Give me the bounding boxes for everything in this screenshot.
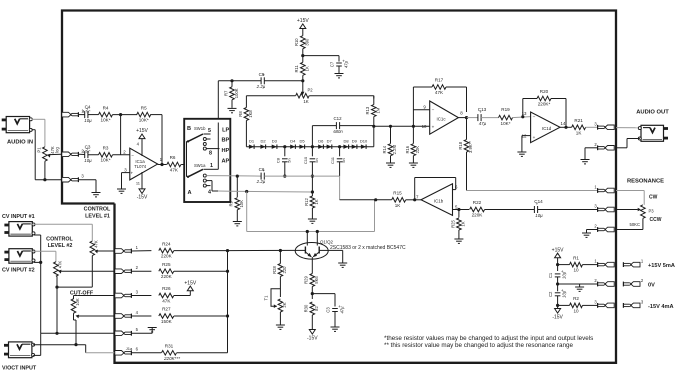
wire to C3e xyxy=(312,294,335,307)
svg-text:8: 8 xyxy=(460,111,463,116)
potentiometer P4 47K xyxy=(90,240,98,255)
connector power 1 xyxy=(594,259,614,267)
diode D8 xyxy=(343,138,349,149)
svg-text:100K: 100K xyxy=(234,88,239,98)
op-amp IC1c xyxy=(430,101,459,134)
resistor R28 220 xyxy=(272,251,287,298)
svg-text:LEVEL #1: LEVEL #1 xyxy=(85,213,110,219)
connector J1 pin5 xyxy=(115,327,139,336)
capacitor C4 10u xyxy=(83,105,93,123)
svg-text:2: 2 xyxy=(136,265,139,270)
svg-text:R27: R27 xyxy=(162,307,171,312)
diode D2 xyxy=(260,138,266,149)
connector resonance 2 xyxy=(594,224,614,232)
label pin4 xyxy=(208,189,211,195)
wire IC1b feedback xyxy=(413,178,456,202)
ground g3 xyxy=(228,108,237,112)
svg-text:4: 4 xyxy=(136,310,139,315)
wire conn3 to R26 xyxy=(132,295,152,297)
label CW xyxy=(649,195,658,201)
diode D6 xyxy=(318,138,324,149)
potentiometer P5 47K xyxy=(54,261,63,277)
svg-text:5n: 5n xyxy=(341,158,346,162)
resistor R5 10K* xyxy=(137,105,151,122)
label J1a xyxy=(126,346,133,351)
resistor R7 100K xyxy=(223,79,238,108)
op-amp IC1a TL074 xyxy=(130,148,158,180)
label CONTROL LEVEL #1 xyxy=(84,207,111,220)
label A xyxy=(188,190,192,196)
connector J2 pin3 xyxy=(62,174,85,182)
node Y xyxy=(340,198,378,201)
label 50KC xyxy=(630,222,640,227)
wire Q bases xyxy=(295,249,328,251)
svg-text:3: 3 xyxy=(594,299,597,304)
resistor R16 22K xyxy=(405,87,420,163)
svg-text:1.5µ*: 1.5µ* xyxy=(83,150,92,154)
resistor R6 47K xyxy=(167,155,181,173)
wire P4 wiper to conn1 xyxy=(97,250,114,252)
wire R11 to junction C5 xyxy=(301,75,304,92)
label Q1/Q2 xyxy=(320,239,333,244)
ground g5 xyxy=(233,222,242,226)
svg-text:R30: R30 xyxy=(304,304,309,312)
label AUDIO IN xyxy=(7,140,33,146)
svg-text:** this resistor value may be: ** this resistor value may be changed to… xyxy=(384,342,574,349)
wire R3 to IC1a pin2 xyxy=(113,154,130,156)
svg-text:J1a: J1a xyxy=(126,346,133,351)
op-amp IC1d xyxy=(531,112,560,143)
svg-text:50KC: 50KC xyxy=(630,222,640,227)
svg-text:2: 2 xyxy=(594,142,597,147)
svg-text:5n: 5n xyxy=(286,158,291,162)
wire CV1 tip to P4 xyxy=(34,224,93,241)
ground g9 xyxy=(517,152,526,156)
resistor R17 47K xyxy=(432,78,446,95)
pin 6 label xyxy=(455,185,458,190)
switch SW1a contacts xyxy=(203,169,218,191)
svg-text:Q1/Q2: Q1/Q2 xyxy=(320,239,333,244)
jack J-AUDIO-OUT xyxy=(638,125,668,141)
switch SW1a pole xyxy=(187,169,203,178)
label BP xyxy=(222,138,230,144)
wire conn4 to R27 xyxy=(132,315,152,317)
svg-text:5K6: 5K6 xyxy=(314,276,319,284)
potentiometer P3 50KC xyxy=(638,205,655,219)
power -15V IC1a pin11 xyxy=(136,172,148,201)
svg-text:D6: D6 xyxy=(318,138,324,143)
svg-text:C13: C13 xyxy=(478,107,487,112)
svg-text:LEVEL #2: LEVEL #2 xyxy=(48,243,73,249)
resistor R1 10 xyxy=(558,255,598,272)
connector power 2 xyxy=(594,278,614,286)
pin 3 label xyxy=(124,167,133,175)
svg-text:R29: R29 xyxy=(304,275,309,283)
wire base node from CV bus xyxy=(228,249,296,252)
wire pin5 junction xyxy=(453,208,461,211)
wire R19 to pin13 xyxy=(513,115,531,118)
capacitor C10 xyxy=(303,156,319,178)
wire CV2 sleeve xyxy=(34,261,43,264)
resistor R13 1M xyxy=(365,96,380,117)
svg-text:10K: 10K xyxy=(239,200,244,208)
svg-text:−: − xyxy=(131,153,134,158)
resistor R26 47K xyxy=(159,286,174,303)
svg-text:+15V: +15V xyxy=(552,247,564,253)
svg-text:CONTROL: CONTROL xyxy=(84,207,111,213)
transistor Q1/Q2 pair xyxy=(295,243,328,260)
wire IC1a out to R6 xyxy=(158,164,167,166)
wire R10 to junction xyxy=(301,49,304,63)
pin 2 label xyxy=(123,149,134,158)
svg-text:R3: R3 xyxy=(103,146,109,151)
svg-text:1K: 1K xyxy=(314,199,319,204)
svg-text:R13: R13 xyxy=(365,106,370,114)
svg-text:BP: BP xyxy=(222,138,230,144)
svg-text:10µ: 10µ xyxy=(562,271,567,279)
resistor R21 1K xyxy=(572,118,586,135)
svg-text:C10: C10 xyxy=(303,156,308,164)
svg-text:6: 6 xyxy=(136,347,139,352)
capacitor C5 2.2u xyxy=(256,72,266,89)
label V/OCT INPUT xyxy=(2,366,37,372)
power +15V R26 xyxy=(174,280,197,295)
svg-text:3: 3 xyxy=(594,204,597,209)
wire emitter node xyxy=(311,287,313,300)
resistor R12 1K xyxy=(304,176,319,218)
footnote 2 xyxy=(384,342,574,349)
connector J2 pin1 xyxy=(62,109,85,117)
capacitor C3 47u emitter xyxy=(326,304,345,327)
svg-text:220K: 220K xyxy=(161,274,173,279)
svg-text:R15: R15 xyxy=(393,191,402,196)
svg-text:R5: R5 xyxy=(141,105,147,110)
svg-text:D9: D9 xyxy=(352,138,358,143)
wire IC1d out to R21 xyxy=(560,126,572,128)
svg-text:10µ: 10µ xyxy=(535,213,543,218)
wire R24 to bus xyxy=(174,249,229,252)
svg-text:LP: LP xyxy=(222,127,229,133)
svg-text:2K: 2K xyxy=(282,302,287,307)
svg-text:2.2µ: 2.2µ xyxy=(256,84,266,89)
svg-text:R1: R1 xyxy=(573,255,579,260)
svg-text:2: 2 xyxy=(594,224,597,229)
label 2SC1583 xyxy=(330,245,406,251)
svg-text:CV INPUT #2: CV INPUT #2 xyxy=(2,268,35,274)
wire bus2 drop detour xyxy=(247,192,375,232)
wire border to jack tip xyxy=(616,127,640,129)
connector power 3 xyxy=(594,299,614,307)
jack J-CV1 xyxy=(4,222,35,237)
svg-text:HP: HP xyxy=(222,148,230,154)
switch SW1b pole xyxy=(187,134,204,177)
svg-text:11: 11 xyxy=(136,181,141,186)
svg-text:5n: 5n xyxy=(314,158,319,162)
resistor R14 2.2M xyxy=(382,126,397,162)
svg-text:P2: P2 xyxy=(308,88,314,93)
svg-text:3: 3 xyxy=(136,289,139,294)
label AP xyxy=(222,158,230,164)
svg-text:1K: 1K xyxy=(304,66,309,71)
jack J-AUDIO-IN xyxy=(2,117,33,133)
ground g11 xyxy=(454,239,463,243)
svg-text:10µ: 10µ xyxy=(84,118,92,123)
ground g8 xyxy=(409,163,418,167)
svg-text:+: + xyxy=(131,171,134,176)
resistor R3 10K* xyxy=(99,146,113,163)
wire sleeve bus to conn5 xyxy=(41,332,115,334)
svg-text:D10: D10 xyxy=(360,138,368,143)
wire bus1 C6 row xyxy=(230,175,261,177)
diode D5 xyxy=(299,138,305,149)
svg-text:R9: R9 xyxy=(229,200,234,206)
svg-text:390: 390 xyxy=(304,38,309,46)
jack J-CV2 xyxy=(4,249,35,264)
ground g4 xyxy=(335,74,344,78)
ground g10 xyxy=(581,160,590,164)
svg-text:1: 1 xyxy=(136,245,139,250)
capacitor C8 xyxy=(275,157,291,178)
svg-text:R17: R17 xyxy=(435,78,444,83)
svg-text:P1: P1 xyxy=(37,147,42,153)
wire R13 to node C12 xyxy=(372,117,375,147)
switch SW1b contacts xyxy=(203,134,219,150)
svg-text:1K: 1K xyxy=(576,130,583,135)
wire C1 to 0V xyxy=(556,277,559,291)
resistor R8 1K8 xyxy=(238,108,253,121)
svg-text:3: 3 xyxy=(124,167,127,172)
svg-text:4: 4 xyxy=(208,189,211,195)
label CV INPUT #1 xyxy=(2,214,35,220)
svg-text:D2: D2 xyxy=(260,138,266,143)
wire bus1 from SW1a xyxy=(206,175,230,177)
svg-text:R21: R21 xyxy=(574,118,583,123)
wire R5 feedback to output xyxy=(150,115,163,166)
svg-text:R16: R16 xyxy=(405,145,410,153)
svg-text:1K: 1K xyxy=(461,221,466,226)
wire CW xyxy=(616,191,644,205)
wire bus2 from SW1a xyxy=(218,190,230,192)
svg-text:V/OCT INPUT: V/OCT INPUT xyxy=(2,366,37,372)
label CCW xyxy=(650,217,662,223)
wire resonance conn2 ground xyxy=(587,230,598,233)
label B SW1b xyxy=(187,126,206,132)
svg-text:R7: R7 xyxy=(223,90,228,96)
svg-text:47K: 47K xyxy=(162,299,171,304)
svg-text:1: 1 xyxy=(594,185,597,190)
wire SW1 internal vertical xyxy=(217,123,219,170)
wire C5 to SW1 box top xyxy=(218,81,261,119)
svg-text:C12: C12 xyxy=(333,116,342,121)
wire C3 to R3 xyxy=(88,154,99,156)
main schematic border xyxy=(62,11,616,363)
svg-text:1: 1 xyxy=(210,163,213,169)
svg-text:AP: AP xyxy=(222,158,230,164)
connector audio-out 3 xyxy=(594,121,614,129)
svg-text:R25: R25 xyxy=(450,219,455,227)
svg-text:10K*: 10K* xyxy=(501,121,511,126)
connector J1 pin1 xyxy=(115,245,139,254)
svg-text:TL074: TL074 xyxy=(134,164,147,169)
label pin5 xyxy=(208,128,211,134)
Q1 emitter xyxy=(305,252,311,257)
Q1 base bar xyxy=(304,247,306,254)
svg-text:9: 9 xyxy=(423,104,426,109)
svg-text:13: 13 xyxy=(522,111,527,116)
wire diode chain xyxy=(246,146,373,148)
label CONTROL LEVEL #2 xyxy=(46,236,73,249)
wire C5 right to R11 node xyxy=(264,80,303,82)
wire T1 to ground xyxy=(279,312,281,325)
svg-text:R6: R6 xyxy=(170,155,176,160)
svg-text:1K: 1K xyxy=(303,99,308,104)
wire P1 wiper to conn2 xyxy=(50,153,62,155)
wire bus1 to corner xyxy=(264,176,339,200)
switch box SW1 xyxy=(184,119,230,202)
pin 12 label xyxy=(522,134,536,140)
diode D1 xyxy=(249,138,255,149)
diode D9 xyxy=(352,138,358,149)
svg-text:47K: 47K xyxy=(435,90,444,95)
label CV INPUT #2 xyxy=(2,268,35,274)
wire IC1c out xyxy=(458,116,478,119)
svg-text:AUDIO IN: AUDIO IN xyxy=(7,140,33,146)
wire conn1 to C4 xyxy=(79,114,85,116)
diode D3 xyxy=(272,138,278,149)
svg-text:10K*: 10K* xyxy=(101,158,111,163)
wire 0V line xyxy=(558,284,598,287)
svg-text:R28: R28 xyxy=(272,265,277,273)
svg-text:10: 10 xyxy=(422,124,427,129)
svg-text:220: 220 xyxy=(282,266,287,274)
svg-text:150K: 150K xyxy=(161,319,173,324)
wire conn5 to ground xyxy=(132,328,153,334)
ground g12 xyxy=(582,233,591,237)
capacitor C6 2.2u xyxy=(256,167,266,184)
wire VOCT sleeve xyxy=(33,333,41,355)
svg-text:5: 5 xyxy=(136,327,139,332)
resistor R11 1K xyxy=(294,62,309,75)
svg-text:C5: C5 xyxy=(259,72,265,77)
connector resonance 1 xyxy=(594,185,614,193)
wire jack sleeve to conn2 xyxy=(616,139,640,148)
pin 1 output xyxy=(160,157,163,162)
trimmer T1 xyxy=(264,289,287,312)
wire collector line xyxy=(306,230,319,233)
wire CV1 sleeve xyxy=(34,235,41,333)
svg-text:SW1b: SW1b xyxy=(194,126,206,131)
svg-text:-15V: -15V xyxy=(552,314,563,320)
wire wiper resonance xyxy=(616,209,638,211)
svg-text:P3: P3 xyxy=(649,208,655,213)
wire C13 to R19 xyxy=(481,117,498,119)
wire conn6 to R31 xyxy=(132,352,162,354)
connector J2 pin2 xyxy=(62,148,85,156)
svg-text:C11: C11 xyxy=(330,156,335,164)
svg-text:2: 2 xyxy=(123,149,126,154)
wire conn2 to R25b xyxy=(132,270,152,272)
wire CV2 tip to P5 xyxy=(34,251,56,262)
svg-text:R24: R24 xyxy=(162,241,171,246)
connector J1 pin2 xyxy=(115,265,139,274)
svg-text:10K: 10K xyxy=(75,298,80,306)
svg-text:1K8: 1K8 xyxy=(248,110,253,118)
svg-text:log: log xyxy=(55,147,60,153)
svg-text:1K: 1K xyxy=(395,203,402,208)
connector J1 pin6 xyxy=(115,347,139,356)
svg-text:47K: 47K xyxy=(93,240,98,248)
wire R4 to node and node A xyxy=(113,113,138,155)
svg-text:7: 7 xyxy=(416,194,419,199)
diode D4 xyxy=(290,138,296,149)
wire +15V down xyxy=(556,258,559,271)
svg-text:2.2M: 2.2M xyxy=(392,145,397,155)
pin 14 label xyxy=(561,121,566,126)
svg-text:B: B xyxy=(187,126,191,132)
svg-text:C8: C8 xyxy=(275,157,280,163)
footnote 1 xyxy=(384,335,593,342)
svg-text:R26: R26 xyxy=(162,286,171,291)
svg-text:RESONANCE: RESONANCE xyxy=(627,179,664,185)
svg-text:2: 2 xyxy=(641,278,644,283)
svg-text:3.9K**: 3.9K** xyxy=(468,141,473,153)
resistor R29 5K6 xyxy=(304,267,319,295)
wire R21 to conn xyxy=(586,126,598,128)
connector J1 pin4 xyxy=(115,310,139,319)
wire P2 left to R8 xyxy=(246,96,295,108)
power -15V emitter xyxy=(307,315,318,341)
capacitor C13 47u xyxy=(478,107,487,126)
power +15V IC1a pin4 xyxy=(136,128,148,156)
Q2 collector xyxy=(316,232,318,246)
resistor R20 220K* xyxy=(523,89,568,129)
svg-text:220K***: 220K*** xyxy=(163,356,180,361)
wire R17 right to output node xyxy=(446,87,467,112)
label SW1a xyxy=(194,163,213,169)
svg-text:R10: R10 xyxy=(294,38,299,46)
svg-text:82: 82 xyxy=(314,306,319,311)
wire C2 down xyxy=(556,296,559,309)
svg-text:+15V 5mA: +15V 5mA xyxy=(648,263,675,269)
wire bus2 xyxy=(230,190,314,194)
ground g7 xyxy=(386,163,395,167)
wire P6 wiper to conn4 xyxy=(79,315,115,317)
svg-text:C2: C2 xyxy=(548,291,553,297)
wire P2 right to R13 xyxy=(309,96,374,99)
svg-text:47µ: 47µ xyxy=(479,121,487,126)
svg-text:8: 8 xyxy=(209,151,212,157)
capacitor C12 680n xyxy=(312,116,373,147)
svg-text:47µ: 47µ xyxy=(340,306,345,314)
svg-text:R11: R11 xyxy=(294,64,299,72)
svg-text:+15V: +15V xyxy=(184,280,196,286)
svg-text:D5: D5 xyxy=(299,138,305,143)
svg-text:D4: D4 xyxy=(290,138,296,143)
capacitor C7 47u xyxy=(329,58,348,73)
svg-text:680n: 680n xyxy=(333,129,343,134)
potentiometer P6 cutoff xyxy=(71,298,80,318)
svg-text:SW1a: SW1a xyxy=(194,163,206,168)
potentiometer P2 1K cutoff xyxy=(296,88,314,105)
svg-text:47µ: 47µ xyxy=(344,60,349,68)
svg-text:-15V: -15V xyxy=(307,335,318,341)
label HP xyxy=(222,148,230,154)
svg-text:1: 1 xyxy=(594,259,597,264)
pin 9 label xyxy=(423,104,434,112)
potentiometer P1 47K log xyxy=(37,146,60,161)
wire conn2 to C3 xyxy=(79,153,85,155)
pin 13 label xyxy=(522,111,536,119)
